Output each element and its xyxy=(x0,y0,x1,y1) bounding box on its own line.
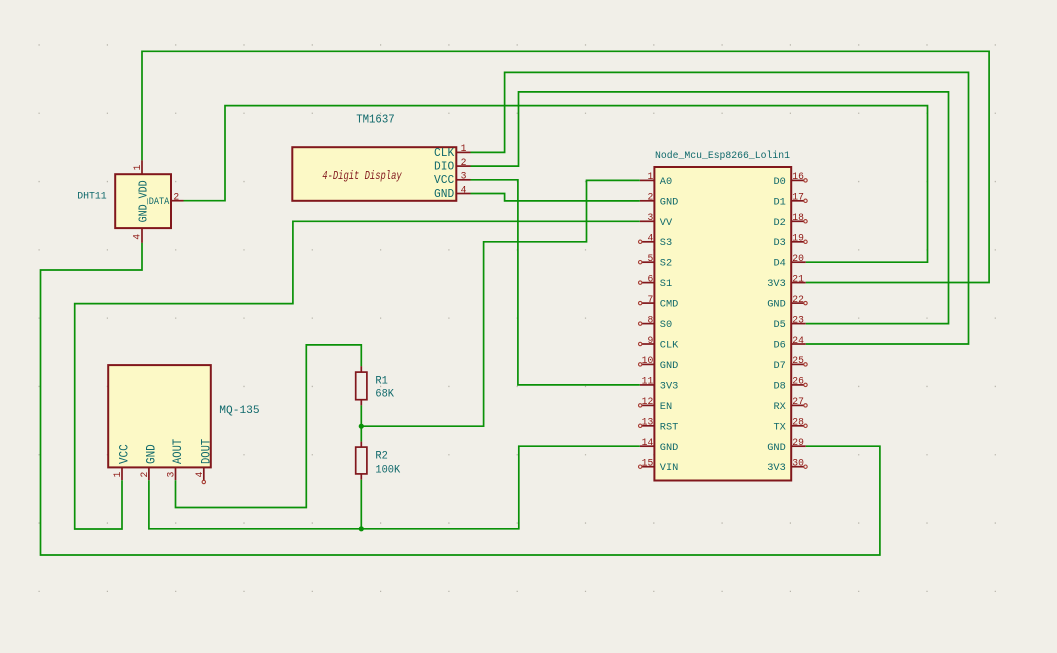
U1 pin 5 S2 (left) xyxy=(639,253,673,270)
DHT11 reference label xyxy=(77,191,107,203)
wire GND bus: MQ-135 pin2 GND via R2 bottom to U1 pin14 GND xyxy=(149,446,640,529)
svg-text:DIO: DIO xyxy=(434,160,454,174)
U1 pin 21 3V3 (right) xyxy=(767,273,806,290)
svg-text:19: 19 xyxy=(792,233,804,244)
DHT11 pin 2 DATA (right) xyxy=(149,191,184,208)
svg-text:30: 30 xyxy=(792,458,804,469)
DHT11 pin 4 GND (bottom) xyxy=(132,228,143,243)
svg-text:3: 3 xyxy=(166,472,177,478)
U1 pin 26 D8 (right) xyxy=(773,376,807,393)
svg-text:R1: R1 xyxy=(375,375,388,387)
svg-text:1: 1 xyxy=(112,472,123,478)
wire VCC: TM1637 pin3 to U1 pin11 3V3 xyxy=(471,180,640,385)
wire VDD: DHT11 pin1 to U1 pin21 3V3 xyxy=(142,51,989,282)
TM1637 reference label xyxy=(356,113,395,126)
U1 reference label Node_Mcu_Esp8266_Lolin1 xyxy=(655,150,790,162)
U1 pin 18 D2 (right) xyxy=(773,212,807,229)
svg-text:TM1637: TM1637 xyxy=(356,113,395,126)
svg-text:GND: GND xyxy=(660,360,679,372)
TM1637 value 4-Digit Display xyxy=(322,169,402,183)
svg-text:S0: S0 xyxy=(660,319,672,331)
svg-text:5: 5 xyxy=(647,253,653,264)
U1 pin 3 VV (left) xyxy=(640,212,673,229)
svg-text:GND: GND xyxy=(660,196,679,208)
svg-text:27: 27 xyxy=(792,396,804,407)
MQ-135 pin 4 DOUT (bottom) xyxy=(194,439,214,484)
U1 pin 23 D5 (right) xyxy=(773,314,805,331)
svg-text:CLK: CLK xyxy=(660,340,679,352)
svg-text:28: 28 xyxy=(792,417,804,428)
U1 pin 25 D7 (right) xyxy=(773,355,807,372)
svg-text:RST: RST xyxy=(660,421,679,433)
MQ-135 pin 1 VCC (bottom) xyxy=(112,444,132,480)
gas sensor MQ-135 body xyxy=(108,365,211,467)
svg-text:VIN: VIN xyxy=(660,462,679,474)
U1 pin 12 EN (left) xyxy=(639,396,673,413)
svg-text:14: 14 xyxy=(642,437,654,448)
svg-text:S2: S2 xyxy=(660,258,672,270)
U1 pin 15 VIN (left) xyxy=(639,458,679,475)
wire CLK: TM1637 pin1 to U1 pin24 D6 xyxy=(471,72,969,344)
svg-text:26: 26 xyxy=(792,376,804,387)
svg-text:S3: S3 xyxy=(660,237,672,249)
U1 pin 11 3V3 (left) xyxy=(640,376,679,393)
svg-text:9: 9 xyxy=(647,335,653,346)
U1 pin 1 A0 (left) xyxy=(640,171,672,188)
wire AOUT: MQ-135 pin3 AOUT to R1 top xyxy=(176,345,362,508)
svg-text:GND: GND xyxy=(767,299,786,311)
svg-text:D3: D3 xyxy=(773,237,785,249)
svg-text:4: 4 xyxy=(132,234,143,240)
svg-text:3: 3 xyxy=(647,212,653,223)
U1 pin 7 CMD (left) xyxy=(639,294,679,311)
svg-text:22: 22 xyxy=(792,294,804,305)
svg-text:2: 2 xyxy=(173,191,179,202)
DHT11 pin 1 VDD (top) xyxy=(132,160,143,174)
svg-text:11: 11 xyxy=(642,376,654,387)
svg-text:3V3: 3V3 xyxy=(767,462,786,474)
U1 pin 22 GND (right) xyxy=(767,294,807,311)
U1 pin 20 D4 (right) xyxy=(773,253,805,270)
wire GND: TM1637 pin4 to U1 pin2 GND xyxy=(471,194,640,201)
svg-text:D4: D4 xyxy=(773,258,785,270)
svg-text:2: 2 xyxy=(461,157,467,168)
svg-text:S1: S1 xyxy=(660,278,672,290)
MQ-135 pin 2 GND (bottom) xyxy=(139,444,159,480)
U1 pin 19 D3 (right) xyxy=(773,233,807,250)
svg-text:8: 8 xyxy=(647,314,653,325)
svg-text:1: 1 xyxy=(132,165,143,171)
U1 pin 13 RST (left) xyxy=(639,417,679,434)
U1 pin 27 RX (right) xyxy=(773,396,807,413)
display module TM1637 body xyxy=(292,147,456,201)
resistor R2 100K xyxy=(356,426,401,529)
svg-text:100K: 100K xyxy=(375,465,400,477)
TM1637 pin 3 VCC xyxy=(434,171,471,188)
svg-text:VCC: VCC xyxy=(434,173,454,187)
svg-text:12: 12 xyxy=(642,396,654,407)
svg-text:3: 3 xyxy=(461,171,467,182)
svg-text:7: 7 xyxy=(647,294,653,305)
svg-text:CMD: CMD xyxy=(660,299,679,311)
svg-text:MQ-135: MQ-135 xyxy=(219,405,259,417)
svg-text:GND: GND xyxy=(144,444,159,464)
TM1637 pin 2 DIO xyxy=(434,157,471,174)
svg-text:20: 20 xyxy=(792,253,804,264)
svg-text:18: 18 xyxy=(792,212,804,223)
svg-text:D0: D0 xyxy=(773,176,785,188)
svg-text:4: 4 xyxy=(647,233,653,244)
svg-text:4: 4 xyxy=(194,472,205,478)
MCU U1 Node_Mcu_Esp8266_Lolin1 body xyxy=(654,167,791,481)
svg-text:D8: D8 xyxy=(773,380,785,392)
svg-text:GND: GND xyxy=(660,442,679,454)
svg-text:3V3: 3V3 xyxy=(767,278,786,290)
svg-text:TX: TX xyxy=(773,421,785,433)
svg-text:3V3: 3V3 xyxy=(660,380,679,392)
U1 pin 10 GND (left) xyxy=(639,355,679,372)
svg-text:24: 24 xyxy=(792,335,804,346)
U1 pin 14 GND (left) xyxy=(640,437,679,454)
svg-text:R2: R2 xyxy=(375,451,387,463)
U1 pin 28 TX (right) xyxy=(773,417,807,434)
svg-text:EN: EN xyxy=(660,401,672,413)
U1 pin 4 S3 (left) xyxy=(639,233,673,250)
svg-text:4: 4 xyxy=(461,184,467,195)
svg-text:A0: A0 xyxy=(660,176,672,188)
svg-text:17: 17 xyxy=(792,192,804,203)
sensor DHT11 body xyxy=(115,174,171,228)
svg-text:4-Digit Display: 4-Digit Display xyxy=(322,169,402,183)
wire VV: U1 pin3 VV to MQ-135 pin1 VCC xyxy=(75,221,640,529)
svg-text:VV: VV xyxy=(660,217,673,229)
U1 pin 9 CLK (left) xyxy=(639,335,680,352)
MQ-135 reference label xyxy=(219,405,259,417)
TM1637 pin 1 CLK xyxy=(434,143,471,160)
svg-text:D7: D7 xyxy=(773,360,785,372)
svg-text:1: 1 xyxy=(647,171,653,182)
wire A0: U1 pin1 A0 to R1/R2 divider node xyxy=(361,180,640,426)
svg-text:25: 25 xyxy=(792,355,804,366)
U1 pin 16 D0 (right) xyxy=(773,171,807,188)
wire GND2: DHT11 pin4 GND to U1 pin29 GND xyxy=(41,243,880,555)
svg-text:D2: D2 xyxy=(773,217,785,229)
svg-text:GND: GND xyxy=(434,187,454,201)
svg-text:VCC: VCC xyxy=(117,444,132,464)
svg-text:D5: D5 xyxy=(773,319,785,331)
U1 pin 29 GND (right) xyxy=(767,437,806,454)
svg-text:2: 2 xyxy=(139,472,150,478)
svg-text:CLK: CLK xyxy=(434,146,455,160)
DHT11 pin names GND_VDD xyxy=(136,180,150,222)
resistor R1 68K xyxy=(356,366,395,426)
svg-text:6: 6 xyxy=(647,273,653,284)
svg-text:29: 29 xyxy=(792,437,804,448)
svg-text:DHT11: DHT11 xyxy=(77,191,107,203)
svg-text:DATA: DATA xyxy=(149,196,170,208)
svg-text:68K: 68K xyxy=(375,389,394,401)
svg-text:15: 15 xyxy=(642,458,654,469)
svg-text:2: 2 xyxy=(647,192,653,203)
U1 pin 6 S1 (left) xyxy=(639,273,673,290)
junction R2 bottom GND xyxy=(359,526,364,531)
svg-text:D1: D1 xyxy=(773,196,785,208)
svg-text:AOUT: AOUT xyxy=(170,439,185,464)
junction divider node A0/R1/R2 xyxy=(359,424,364,429)
svg-text:16: 16 xyxy=(792,171,804,182)
svg-text:13: 13 xyxy=(642,417,654,428)
svg-text:1: 1 xyxy=(461,143,467,154)
svg-text:Node_Mcu_Esp8266_Lolin1: Node_Mcu_Esp8266_Lolin1 xyxy=(655,150,790,162)
TM1637 pin 4 GND xyxy=(434,184,471,201)
svg-text:GND: GND xyxy=(767,442,786,454)
wire DIO: TM1637 pin2 to U1 pin23 D5 xyxy=(471,92,949,324)
U1 pin 8 S0 (left) xyxy=(639,314,673,331)
svg-text:RX: RX xyxy=(773,401,785,413)
U1 pin 17 D1 (right) xyxy=(773,192,807,209)
svg-text:D6: D6 xyxy=(773,340,785,352)
svg-text:23: 23 xyxy=(792,314,804,325)
svg-text:10: 10 xyxy=(642,355,654,366)
U1 pin 2 GND (left) xyxy=(640,192,679,209)
svg-text:DOUT: DOUT xyxy=(198,439,213,464)
svg-text:21: 21 xyxy=(792,273,804,284)
U1 pin 30 3V3 (right) xyxy=(767,458,807,475)
U1 pin 24 D6 (right) xyxy=(773,335,805,352)
wire DATA: DHT11 pin2 to U1 pin20 D4 xyxy=(184,106,928,263)
MQ-135 pin 3 AOUT (bottom) xyxy=(166,439,186,481)
